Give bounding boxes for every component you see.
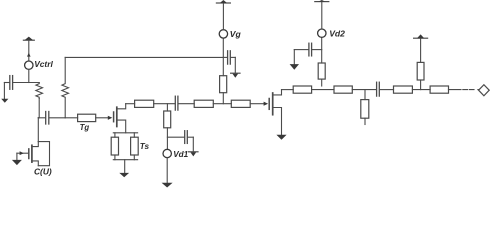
wire to output port (dash-dot): [449, 89, 479, 91]
DC source Vd1: [163, 149, 171, 157]
wire to node F: [352, 89, 376, 91]
coupling capacitor (varactor to gate line): [38, 112, 65, 125]
transistor FET2: [269, 90, 281, 135]
wire Vg to rail: [222, 3, 224, 30]
resistor R (Vctrl): [36, 83, 43, 99]
wire Ts to ground: [124, 160, 126, 173]
node F open stub down: [364, 90, 366, 100]
wire to node E: [312, 89, 334, 91]
DC source Vg: [219, 30, 227, 38]
svg-text:C(U): C(U): [34, 167, 52, 177]
long bias wire Vg to gate resistor: [65, 56, 223, 58]
shunt transmission line (drain feed 1): [164, 111, 171, 128]
power rail arrow (Vd2): [315, 0, 329, 2]
transmission line Tg: [78, 114, 96, 121]
arrowhead on FET1 gate: [108, 116, 113, 120]
node E up to Vd2 feed: [321, 79, 323, 86]
arrowhead on varactor gate: [20, 151, 24, 155]
ground (Vg bypass): [231, 73, 240, 78]
wire Vd2 to rail: [321, 2, 323, 29]
wire Tg to FET1 gate: [96, 117, 109, 119]
power rail arrow (right bias): [414, 34, 428, 38]
transistor FET1: [114, 104, 126, 133]
wire cap to ground: [293, 50, 295, 65]
svg-text:Tg: Tg: [80, 123, 90, 132]
stub lead right bottom: [133, 155, 135, 160]
FET1 source to Ts stub pair: [113, 132, 137, 134]
wire FET2 drain to line: [282, 89, 294, 91]
wire node down to varactor: [37, 118, 39, 142]
wire cap to ground: [192, 137, 194, 151]
wire to node D: [213, 103, 231, 105]
DC source Vd2: [318, 29, 326, 37]
DC block capacitor (interstage 1): [175, 96, 194, 110]
ground (Vd1): [162, 183, 173, 188]
wire FET1 drain to line: [126, 103, 135, 105]
wire Vd1 to ground: [166, 158, 168, 183]
transmission line (drain 2a): [293, 86, 311, 93]
shunt transmission line (gate feed): [220, 76, 227, 93]
svg-text:Vctrl: Vctrl: [34, 59, 53, 69]
arrowhead on Vctrl wire: [27, 53, 31, 57]
ground (Vd1 bypass): [189, 152, 198, 157]
wire to FET2 gate: [250, 103, 264, 105]
stub lead right top: [133, 133, 135, 137]
varactor C(U) MOSFET: [17, 142, 50, 166]
DC block capacitor (output): [377, 82, 394, 96]
wire node A horizontal: [13, 82, 40, 84]
output port diamond: [479, 85, 490, 96]
transmission line (drain 1): [135, 100, 154, 107]
ground (varactor gate): [12, 160, 22, 165]
source stub line Ts (right): [131, 137, 139, 155]
open stub line: [361, 100, 369, 119]
bypass capacitor (Vd2): [294, 43, 321, 56]
power rail arrow (Vctrl): [23, 37, 34, 41]
bottom bar of Ts pair: [113, 159, 137, 161]
transmission line (gate 2): [231, 100, 250, 107]
wire bias stub to rail: [420, 38, 422, 62]
svg-text:Vd1: Vd1: [173, 150, 188, 159]
wire R to node: [37, 99, 40, 118]
transmission line (drain 2b): [334, 86, 352, 93]
power rail arrow (Vg): [216, 0, 230, 3]
resistor R (gate bias): [62, 57, 69, 117]
node D up to Vg feed: [222, 93, 224, 104]
bypass capacitor (Vd1): [167, 131, 193, 144]
svg-text:Vd2: Vd2: [329, 29, 345, 39]
wire Vctrl source to node A: [28, 70, 30, 83]
source stub line Ts (left): [111, 137, 118, 155]
DC source Vctrl: [25, 61, 33, 69]
open stub lead: [364, 118, 366, 124]
ground (Vd2 bypass): [290, 64, 299, 70]
ground (left of Vctrl): [1, 99, 8, 103]
shunt branch node C to Vd1: [166, 104, 168, 111]
ground (Ts): [119, 173, 129, 177]
wire Vd2 stub up: [321, 37, 323, 63]
bias stub line: [417, 62, 424, 80]
ground (FET2 source): [276, 135, 286, 140]
wire to node G: [412, 89, 430, 91]
wire node B to Tg: [65, 117, 77, 119]
stub lead left top: [114, 133, 116, 137]
wire to Vd1: [166, 128, 168, 150]
shunt transmission line (drain feed 2): [318, 63, 325, 79]
wire Vg stub up: [222, 38, 224, 76]
bypass capacitor (Vg): [223, 51, 235, 64]
svg-text:Vg: Vg: [230, 29, 242, 39]
stub lead left bottom: [114, 155, 116, 160]
wire cap to ground: [234, 57, 236, 73]
node G up to bias stub: [420, 80, 422, 90]
transmission line (interstage): [194, 100, 213, 107]
svg-text:Ts: Ts: [140, 142, 150, 151]
wire cap to ground: [3, 83, 5, 99]
arrowhead on FET2 gate: [264, 102, 269, 106]
wire rail to Vctrl source: [28, 40, 30, 61]
capacitor (Vctrl bypass): [4, 76, 12, 90]
transmission line (output b): [430, 86, 448, 93]
wire varactor gate to ground: [16, 153, 18, 160]
wire line to node C: [154, 103, 175, 105]
transmission line (output a): [394, 86, 413, 93]
